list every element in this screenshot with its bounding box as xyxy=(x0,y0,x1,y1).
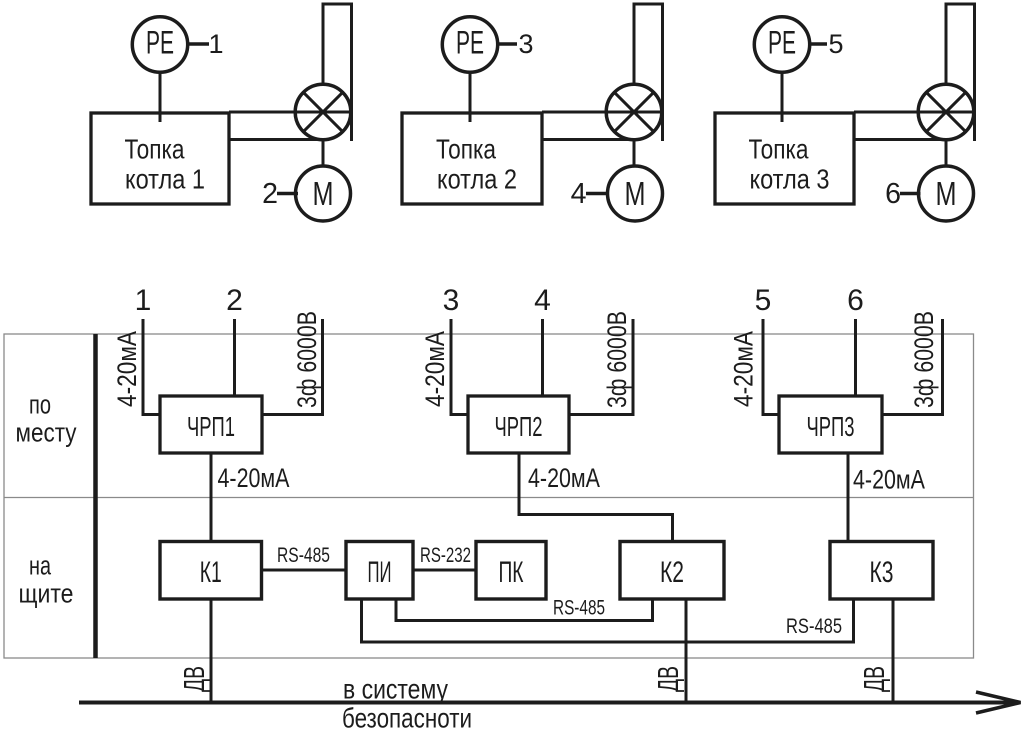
svg-text:щите: щите xyxy=(19,579,74,609)
svg-text:6: 6 xyxy=(847,284,864,317)
svg-text:4-20мА: 4-20мА xyxy=(729,331,759,407)
power wire 3ф 6000В to ЧРП1 xyxy=(262,319,323,415)
wire ЧРП1 output 4-20мА to К1 xyxy=(210,453,213,542)
svg-text:PE: PE xyxy=(456,25,484,61)
svg-text:RS-485: RS-485 xyxy=(277,544,330,567)
wire PE1 to furnace 1 xyxy=(159,73,162,123)
controller box ПК xyxy=(476,542,546,600)
svg-text:котла 3: котла 3 xyxy=(750,164,830,195)
wire ПИ to К3 RS-485 xyxy=(362,599,854,642)
duct top furnace 1 to fan 1 xyxy=(229,111,352,114)
table heavy separator line xyxy=(93,334,98,658)
pressure sensor PE3 xyxy=(754,17,809,72)
svg-text:ДВ: ДВ xyxy=(859,666,891,692)
safety bus line xyxy=(79,701,1016,705)
svg-text:4-20мА: 4-20мА xyxy=(420,331,450,407)
duct bottom furnace 2 to fan 2 xyxy=(542,138,630,141)
motor M2 xyxy=(608,166,663,221)
svg-text:4-20мА: 4-20мА xyxy=(112,331,142,407)
chimney pipe 1 xyxy=(323,4,352,141)
svg-text:5: 5 xyxy=(755,284,772,317)
wire signal 2 to ЧРП1 xyxy=(233,319,236,396)
wire К1 to ПИ RS-485 xyxy=(262,569,347,572)
row label по месту xyxy=(16,390,77,448)
svg-text:котла 1: котла 1 xyxy=(125,164,205,195)
svg-text:4: 4 xyxy=(534,284,551,317)
safety bus arrowhead xyxy=(976,692,1021,713)
svg-text:Топка: Топка xyxy=(125,134,185,165)
pressure sensor PE2 xyxy=(442,17,497,72)
controller box К3 xyxy=(830,542,933,600)
svg-text:5: 5 xyxy=(828,29,843,59)
svg-text:ПК: ПК xyxy=(499,556,524,589)
label line 2 (M1) xyxy=(262,178,298,210)
svg-text:3ф 6000В: 3ф 6000В xyxy=(602,311,632,408)
svg-text:Топка: Топка xyxy=(436,134,496,165)
svg-text:PE: PE xyxy=(768,25,796,61)
wire К1 to safety bus ДВ xyxy=(210,599,213,703)
label line 4 (M2) xyxy=(571,178,608,210)
svg-text:ЧРП1: ЧРП1 xyxy=(187,411,235,442)
wire PE3 to furnace 3 xyxy=(781,73,784,123)
VFD box ЧРП3 xyxy=(779,396,882,453)
wire PE2 to furnace 2 xyxy=(469,73,472,123)
furnace box Топка котла 2 xyxy=(402,113,542,204)
label line 1 (PE1) xyxy=(188,29,224,59)
duct bottom furnace 3 to fan 3 xyxy=(854,138,942,141)
chimney pipe 2 xyxy=(634,4,663,141)
pressure sensor PE1 xyxy=(132,17,187,72)
motor M1 xyxy=(296,166,351,221)
svg-text:6: 6 xyxy=(885,178,901,210)
power wire 3ф 6000В to ЧРП2 xyxy=(569,319,633,415)
svg-text:4-20мА: 4-20мА xyxy=(528,463,600,493)
svg-text:M: M xyxy=(625,175,646,212)
svg-text:ДВ: ДВ xyxy=(653,666,685,692)
svg-text:по: по xyxy=(29,390,51,420)
svg-text:1: 1 xyxy=(135,284,152,317)
wire ЧРП3 output 4-20мА to К3 xyxy=(847,453,850,542)
svg-text:3ф 6000В: 3ф 6000В xyxy=(909,311,939,408)
motor M3 xyxy=(919,166,974,221)
wire К3 to safety bus ДВ xyxy=(892,599,895,703)
svg-text:RS-232: RS-232 xyxy=(420,544,471,567)
svg-text:ЧРП2: ЧРП2 xyxy=(495,411,543,442)
svg-text:К2: К2 xyxy=(660,556,684,589)
svg-text:К1: К1 xyxy=(200,556,222,589)
wire К2 to safety bus ДВ xyxy=(685,599,688,703)
table row divider xyxy=(4,497,974,499)
svg-text:RS-485: RS-485 xyxy=(786,615,842,638)
duct top furnace 3 to fan 3 xyxy=(854,111,975,114)
wire signal 6 to ЧРП3 xyxy=(854,319,857,396)
wire ЧРП2 output 4-20мА to К2 xyxy=(519,453,673,542)
svg-text:3: 3 xyxy=(443,284,460,317)
label line 5 (PE3) xyxy=(810,29,844,59)
power wire 3ф 6000В to ЧРП3 xyxy=(882,319,943,415)
location table frame xyxy=(4,334,974,658)
svg-text:4-20мА: 4-20мА xyxy=(218,463,290,493)
fan damper F1 xyxy=(295,84,351,140)
svg-text:ДВ: ДВ xyxy=(179,666,211,692)
furnace box Топка котла 1 xyxy=(91,113,229,204)
wire fan 2 to motor M2 xyxy=(633,140,636,166)
svg-text:M: M xyxy=(936,175,957,212)
svg-text:в систему: в систему xyxy=(343,674,448,705)
svg-text:К3: К3 xyxy=(870,556,894,589)
svg-text:котла 2: котла 2 xyxy=(437,164,517,195)
VFD box ЧРП2 xyxy=(468,396,569,453)
svg-text:ПИ: ПИ xyxy=(368,556,392,589)
wire signal 1 to ЧРП1 xyxy=(143,319,160,415)
fan damper F2 xyxy=(606,84,662,140)
wire signal 3 to ЧРП2 xyxy=(451,319,468,415)
svg-text:2: 2 xyxy=(262,178,278,210)
wire fan 1 to motor M1 xyxy=(322,140,325,166)
duct bottom furnace 1 to fan 1 xyxy=(229,138,319,141)
svg-text:M: M xyxy=(313,175,334,212)
svg-text:безопасноти: безопасноти xyxy=(342,703,472,734)
wire ПИ to К2 RS-485 xyxy=(396,599,653,621)
svg-text:1: 1 xyxy=(208,29,223,59)
fan damper F3 xyxy=(918,84,974,140)
svg-text:Топка: Топка xyxy=(749,134,809,165)
row label на щите xyxy=(19,551,74,609)
wire ПИ to ПК RS-232 xyxy=(413,569,476,572)
VFD box ЧРП1 xyxy=(160,396,262,453)
svg-text:на: на xyxy=(29,551,52,581)
svg-text:4: 4 xyxy=(571,178,587,210)
wire fan 3 to motor M3 xyxy=(945,140,948,166)
furnace box Топка котла 3 xyxy=(715,113,854,204)
controller box К1 xyxy=(160,542,262,600)
chimney pipe 3 xyxy=(946,4,975,141)
duct top furnace 2 to fan 2 xyxy=(542,111,663,114)
svg-text:месту: месту xyxy=(16,418,77,448)
wire signal 5 to ЧРП3 xyxy=(763,319,779,415)
controller box ПИ xyxy=(346,542,413,600)
svg-text:2: 2 xyxy=(226,284,243,317)
wire signal 4 to ЧРП2 xyxy=(541,319,544,396)
svg-text:3: 3 xyxy=(518,29,533,59)
svg-text:4-20мА: 4-20мА xyxy=(853,465,925,495)
controller box К2 xyxy=(620,542,724,600)
svg-text:ЧРП3: ЧРП3 xyxy=(807,411,855,442)
svg-text:3ф 6000В: 3ф 6000В xyxy=(292,311,322,408)
svg-text:PE: PE xyxy=(146,25,174,61)
svg-text:RS-485: RS-485 xyxy=(553,597,605,620)
label line 3 (PE2) xyxy=(498,29,534,59)
label line 6 (M3) xyxy=(885,178,920,210)
